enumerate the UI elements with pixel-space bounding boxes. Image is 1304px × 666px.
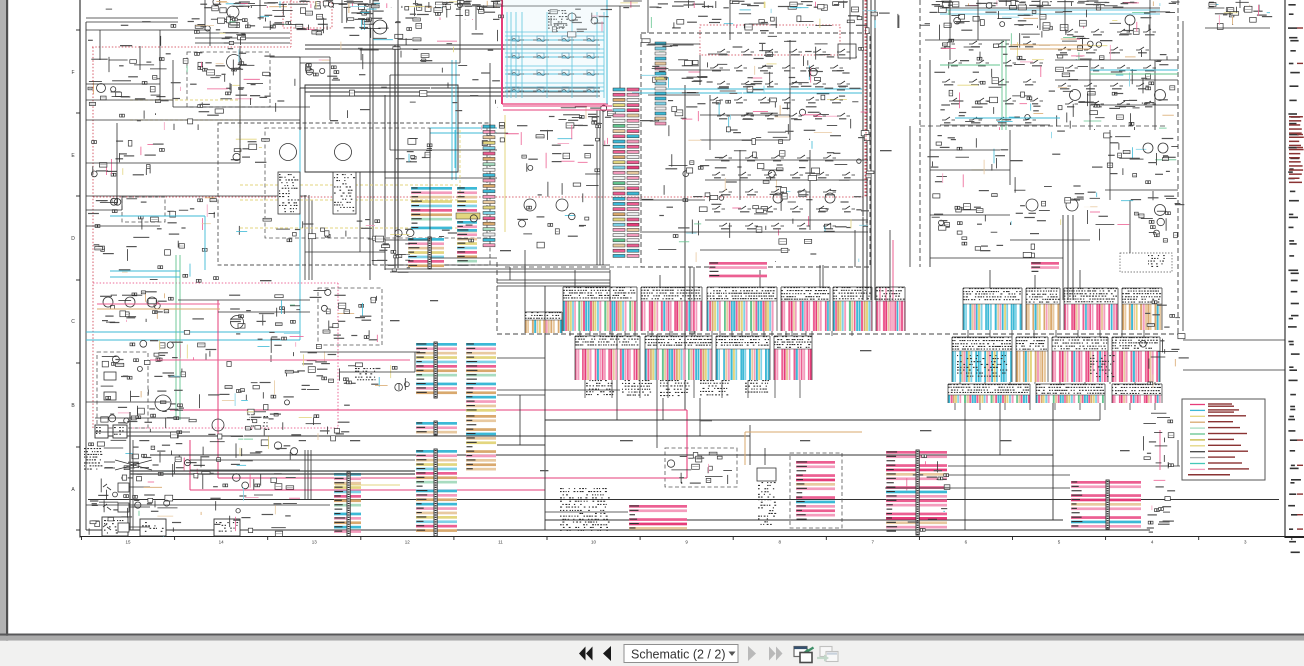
connector bank J18 [1112, 337, 1160, 382]
relay ladder small boxes [512, 36, 519, 41]
connector bank J8 row2 [645, 336, 712, 380]
box label 3 [216, 522, 238, 532]
wire bundle x385 [384, 95, 386, 270]
cab main dashed enclosure bottom [497, 333, 1178, 335]
bank hang wires below row1 [570, 330, 1144, 337]
yellow wire bottom left [335, 484, 400, 486]
wire list L8 [466, 343, 496, 412]
wire bundle y265-272 [385, 264, 610, 266]
terminal block under J7 [586, 380, 614, 395]
colored accents right top [1010, 44, 1090, 46]
pink dashed battery-zone frame [93, 282, 338, 284]
wire list L9 [466, 415, 496, 471]
cluster: key switch [154, 331, 216, 362]
wire top flasher feed [270, 56, 300, 58]
cluster: head lamp group [100, 291, 169, 323]
cluster: top-left extra [200, 3, 500, 118]
lamp circles right [1070, 90, 1081, 101]
long bus y520 [545, 519, 1063, 521]
wire list L4 [457, 229, 477, 266]
coil box hatch 2 [334, 174, 355, 211]
cluster: left lamp group [89, 57, 165, 117]
cluster: left sparse area [94, 234, 219, 283]
cyan vertical x300 [299, 130, 301, 340]
long bus y530 [86, 529, 1150, 531]
connector matrix block left edge [84, 448, 102, 470]
relay circles mid [524, 199, 536, 211]
cluster: right column parts [1141, 191, 1185, 242]
bold vertical pair x395 [394, 45, 396, 268]
terminal rows J17 [1090, 355, 1115, 377]
cluster: dome lamp group [1010, 187, 1108, 226]
dashed box bottom far right [821, 454, 823, 456]
grey dashed battery box [97, 352, 148, 428]
connector bank J11 right [963, 288, 1022, 330]
flasher relay K2 [227, 55, 242, 70]
svg-text:C: C [71, 319, 75, 325]
lamp R1 [1125, 15, 1135, 25]
wire list L17 [1031, 262, 1059, 272]
wire list L14 [1071, 480, 1141, 529]
circle right column [1155, 205, 1166, 216]
connector bank J13 [1064, 288, 1118, 330]
cluster: seat switches [705, 151, 874, 244]
battery symbols lower [95, 425, 108, 438]
wire trio harness y88-96 [300, 87, 600, 89]
grey dashed inverter box [122, 197, 165, 222]
cluster: breaker row [271, 363, 409, 391]
cluster: lower left switches [89, 440, 175, 537]
x-cross wire pair [115, 460, 152, 470]
component strip x755 [757, 468, 776, 481]
pink bus y478 [218, 477, 687, 479]
pink wires battery zone [97, 303, 220, 305]
red dotted box mid top [700, 25, 840, 55]
adjacent sheet content marks [1288, 4, 1303, 553]
vertical x610 mid [609, 270, 611, 334]
cluster: lower-left extra [89, 434, 300, 537]
lamp switch glyphs [103, 484, 111, 490]
toolbar last-page button (disabled) [769, 647, 776, 661]
heater hatch block [1148, 255, 1165, 267]
cluster: right lamps 2 [1057, 61, 1174, 130]
wire y107 horizontal [173, 106, 310, 108]
relay K3 circle [373, 20, 387, 34]
cluster: relay block top parts [550, 9, 612, 37]
grey dashed flasher box [187, 52, 270, 107]
terminal block under J8 [622, 380, 652, 396]
connector bank J2 [641, 287, 702, 331]
cluster: far corner block [1208, 2, 1272, 29]
terminal block under J8b [660, 380, 690, 396]
vertical x690 pair [689, 267, 691, 334]
wire web vertical runs [100, 0, 1240, 466]
wire list L5 (fuse rows) [416, 342, 457, 398]
cluster: resistor pair [305, 60, 340, 81]
connector bank J21 row3 [1112, 384, 1162, 403]
wire list L6 [416, 421, 457, 435]
toolbar tile-windows button (disabled) [817, 647, 838, 662]
red dotted main frame left [92, 47, 94, 428]
switch field: hvac rows [710, 49, 850, 119]
inner dashed enclosure [265, 128, 487, 238]
cluster: lower mid switches [176, 442, 300, 515]
ladder top hatch [548, 10, 568, 29]
svg-text:F: F [71, 70, 74, 76]
cluster: battery zone extra [106, 291, 330, 426]
relay ladder rows [505, 39, 604, 41]
cluster: small parts [241, 392, 266, 430]
green vertical right top [1001, 40, 1003, 130]
beacon circles [1143, 143, 1153, 153]
long bus y420 [545, 419, 1100, 421]
ground strap boxes [102, 517, 128, 536]
wire top left telephone [86, 21, 178, 23]
connector bank J5 [833, 287, 872, 331]
connector strip S3 [483, 125, 495, 247]
cluster: right edge lower bits [1147, 480, 1175, 532]
pink wire legend area [1159, 430, 1161, 470]
red dotted frame right [864, 0, 866, 197]
cluster: right mid parts [931, 135, 1005, 250]
cluster: far-left top extra [88, 9, 209, 130]
cyan wires left mid [110, 215, 205, 217]
vertical x765 down [764, 448, 766, 465]
connector rows C1 [220, 33, 246, 45]
relay circles in dashed enclosure [280, 144, 297, 161]
cluster: enclosure right parts [396, 139, 432, 163]
connector bank J14 [1122, 288, 1162, 330]
pink verticals right of mid bank [879, 287, 881, 331]
yellow dashed upper-left pair [130, 99, 240, 101]
adjacent sheet red block [1289, 116, 1304, 183]
switch field: seat rows [712, 155, 855, 229]
pink vertical x218 [217, 300, 219, 478]
cyan pair to right harness [632, 88, 862, 90]
wire bus vertical left edge [85, 22, 87, 530]
connector bank J4 [781, 287, 830, 331]
wire bundle top mid vertical [369, 0, 371, 280]
long bus y436 [95, 435, 750, 437]
horn hatch block [250, 416, 269, 430]
connector bank J10 row2 [774, 336, 812, 380]
connector bank J1 (cab main) [563, 287, 637, 331]
pink bus long y410 [170, 409, 687, 411]
terminal block under J9b [745, 380, 769, 393]
schematic sheet left border [79, 0, 81, 538]
adjacent sheet right border [1284, 0, 1286, 538]
cluster: enclosure left parts [231, 138, 270, 163]
dashed box bottom right of center [790, 453, 842, 528]
connector bank J12 [1026, 288, 1060, 330]
yellow wires inside relay box [240, 184, 460, 186]
vertical x1183 [1182, 21, 1184, 331]
svg-text:14: 14 [219, 540, 225, 545]
cluster: alternator area [148, 372, 183, 438]
wire y281 bundle [497, 279, 610, 281]
cluster: top busy strip [651, 9, 937, 34]
schematic sheet bottom border [80, 536, 1304, 538]
seat/hvac dashed enclosure [641, 33, 870, 267]
vertical bundle lower left [304, 450, 306, 500]
strip hatch [758, 482, 776, 525]
lamp L1 [97, 84, 106, 93]
svg-text:13: 13 [312, 540, 318, 545]
grey bundle x1063 down [1062, 215, 1064, 300]
cluster: horn group [218, 393, 350, 445]
wire list L10 feeds [497, 357, 545, 359]
connector bank J7 row2 [575, 336, 640, 380]
cluster: enclosure interior sparse [642, 154, 710, 237]
bold grey pair y471 [130, 470, 415, 472]
cluster: enclosure bottom row [236, 215, 477, 242]
cluster: engine conn box [667, 452, 732, 484]
cluster: hvac right column [792, 47, 870, 141]
wire list L15 left [334, 472, 361, 536]
box label 1 [104, 520, 125, 534]
cluster: top fringe right [932, 0, 1177, 10]
connector bank J3 [707, 287, 777, 331]
vertical x1150 top [1149, 0, 1151, 60]
cluster: mid connectors [372, 229, 411, 273]
connector bank J17 [1052, 337, 1108, 382]
wire list L1 [411, 187, 452, 229]
yellow vertical x505 [504, 115, 506, 232]
connector bank J19 row3 [948, 384, 1030, 403]
cyan verticals inside relay box [454, 130, 456, 168]
right dashed enclosure vertical [919, 0, 921, 267]
switch field: right lamps rows [1058, 29, 1156, 107]
battery sym [838, 44, 856, 58]
cluster: stop/tail relays [549, 105, 615, 128]
start relay circle [231, 316, 244, 329]
vertical x1000 [999, 403, 1001, 455]
red dotted enclosure top-left [92, 46, 291, 48]
svg-text:D: D [71, 236, 75, 242]
cluster: hvac relays [707, 41, 797, 144]
legend rows [1190, 403, 1249, 469]
wire y178 [385, 177, 497, 179]
cluster: top center dense [939, 0, 1053, 30]
connector strip S1 [613, 88, 625, 257]
wire list L16 pink rows [709, 262, 767, 277]
wire list L11 bottom [629, 505, 687, 530]
legend footer text [1188, 474, 1230, 476]
cluster: left switches [91, 141, 164, 177]
connector strip S2 [627, 88, 639, 257]
cyan bus left mid [86, 331, 300, 333]
green verticals left [175, 255, 177, 420]
dome lamp circles [1026, 199, 1038, 211]
connector strip S4 [655, 42, 666, 125]
cluster: right small lamps [1107, 136, 1177, 177]
vertical x930 [929, 60, 931, 267]
cluster: top fringe mid [620, 0, 858, 12]
dashed line mid [505, 266, 641, 268]
orange wire bottom mid [745, 431, 862, 433]
vertical x1100 [1099, 403, 1101, 420]
vertical x965 [964, 403, 966, 530]
cluster: inverter area [88, 198, 216, 230]
toolbar page dropdown [624, 645, 738, 663]
svg-text:Schematic (2 / 2): Schematic (2 / 2) [631, 648, 725, 662]
wire list L2b [457, 221, 477, 233]
wires from mid banks down [616, 334, 618, 420]
svg-text:11: 11 [498, 540, 503, 545]
relay coil boxes [278, 172, 300, 214]
cluster: solenoid [271, 334, 344, 363]
viewer left gutter [0, 0, 6, 641]
lamp circles seat area [773, 193, 783, 203]
switch field: right inner rows [942, 41, 1043, 123]
viewer toolbar background [0, 641, 1304, 666]
breaker hatch [355, 368, 376, 380]
cluster: upper mid relay [341, 0, 429, 50]
connector bank J20 row3 [1036, 384, 1105, 403]
long bus y455 [150, 454, 1053, 456]
cluster: lamp feed row [482, 120, 610, 146]
cluster: battery box interior [101, 356, 150, 423]
cluster: seat zone extra [641, 36, 868, 262]
wire list L12 in dashed box [796, 461, 835, 520]
red dotted frame bottom [93, 196, 865, 198]
pink bus y490 [190, 489, 545, 491]
vertical x750 [749, 425, 751, 465]
wire list L7 [416, 449, 457, 536]
cluster: top fringe left [200, 0, 500, 13]
terminal block bottom mid [560, 488, 610, 531]
toolbar previous-page button [603, 646, 611, 661]
grey harness bundle x863-876 [862, 0, 864, 300]
vertical x890 [889, 230, 891, 302]
relay ladder pink border bold [501, 0, 503, 104]
cluster: right edge column [1140, 301, 1189, 388]
toolbar next-page button (disabled) [748, 646, 756, 661]
grey verticals bottom-left frame [129, 412, 131, 530]
box label 2 [142, 522, 164, 532]
vertical x1053 [1052, 403, 1054, 520]
harness enclosure (grey dashed) cab area [218, 123, 490, 265]
vertical x685 [684, 85, 686, 410]
wire labels scatter [120, 30, 1130, 471]
svg-text:15: 15 [125, 540, 131, 545]
red dotted box small top [283, 2, 332, 28]
connector bank J15 row2 right [952, 337, 1012, 382]
alternator circle [155, 395, 171, 411]
cluster: right-mid extra [927, 131, 1178, 258]
relay ladder block (turn signal) frame [501, 0, 503, 104]
cluster: right-top extra [934, 12, 1175, 122]
dotted box heater [1120, 253, 1172, 272]
horn relay circle [212, 419, 224, 431]
toolbar first-page button [579, 647, 586, 661]
vertical x600 trio [596, 110, 598, 265]
cyan vertical x452 [451, 60, 453, 180]
cluster: right enclosure interior [940, 31, 1055, 130]
sheet inner bottom line [88, 499, 1279, 501]
coil box hatch [279, 174, 299, 212]
vertical x657 down [656, 334, 658, 448]
toolbar open-in-window button [794, 647, 814, 663]
vertical bundle x305 [304, 195, 306, 280]
svg-text:10: 10 [591, 540, 597, 545]
relay circle in ladder [568, 13, 576, 21]
engine dashed box bottom center [665, 448, 737, 487]
cluster: right of L13 [907, 455, 950, 532]
head lamp circles [103, 297, 113, 307]
cluster: flasher box interior [198, 62, 271, 108]
cyan pair headlight [430, 127, 497, 129]
cluster: right edge pink bits [1143, 413, 1173, 468]
cluster: top right lamps [1058, 1, 1180, 60]
hang wires row1-to-row2 mid [580, 331, 1155, 410]
wire list L3 [408, 237, 444, 269]
connector bank J5b pink tail [876, 287, 906, 331]
relay ladder vertical cyan risers [506, 12, 508, 98]
relay ladder tint [504, 0, 606, 103]
wires bank feeds top [574, 270, 576, 287]
relay K1 circle [227, 6, 239, 18]
cluster: operator present box interior [321, 289, 377, 342]
bold horizontal y45 pair [305, 44, 600, 46]
battery plates [104, 372, 116, 380]
wire web horizontal runs [86, 6, 1285, 512]
pink dotted x866 strengthen [865, 0, 867, 197]
cluster: telephone connector [188, 15, 285, 29]
legend box [1182, 399, 1265, 480]
terminal rows J15 [957, 355, 1007, 377]
tan pair top right [940, 9, 1160, 11]
connector bank J6 small [525, 312, 562, 333]
big wire loop top mid [305, 85, 458, 172]
cab main dashed enclosure right edge [1177, 0, 1179, 334]
cluster: start relay [230, 305, 300, 340]
cluster: hvac left strip [652, 45, 707, 121]
vertical x545 down [544, 286, 546, 530]
wire list L2 [457, 187, 477, 212]
cluster: column interior [517, 153, 600, 248]
connector bank J9 row2 [716, 336, 770, 380]
dashed box operator-present [318, 288, 382, 345]
svg-text:12: 12 [405, 540, 411, 545]
cluster: top connectors [434, 1, 504, 20]
terminal block under J9 [700, 380, 730, 395]
long bus y466 right [948, 465, 1180, 467]
wire y196 left [86, 195, 307, 197]
viewer bottom panel divider [0, 634, 1304, 636]
connector bank J16 [1016, 337, 1048, 382]
wire list L13 (two-column) [886, 450, 947, 535]
cluster: top-left relay box interior [205, 0, 373, 34]
